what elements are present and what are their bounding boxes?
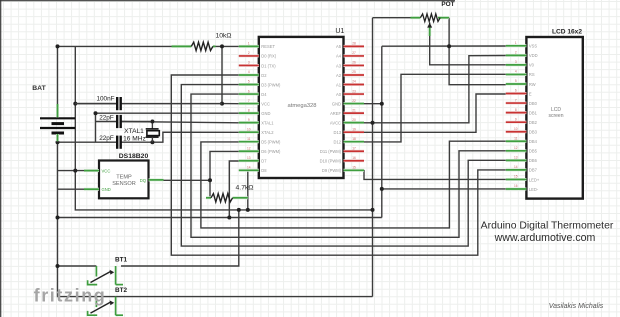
pushbutton BT1	[88, 257, 128, 285]
svg-text:5: 5	[248, 80, 250, 84]
svg-text:GND: GND	[102, 187, 111, 192]
svg-text:D13: D13	[333, 130, 341, 135]
pin U1 right 22 GND	[344, 99, 365, 104]
svg-text:22: 22	[352, 99, 356, 103]
svg-text:A3: A3	[336, 63, 342, 68]
pin U1 left 3 D1 (TX)	[239, 61, 259, 66]
pin U1 left 5 D3 (PWM)	[239, 80, 259, 85]
wire gnd to LED-	[382, 188, 506, 190]
junction gnd pin	[380, 102, 384, 106]
svg-text:D3 (PWM): D3 (PWM)	[261, 82, 281, 87]
svg-text:XTAL1: XTAL1	[124, 128, 144, 135]
wire 10k to reset	[216, 45, 239, 47]
pin U1 left 1 RESET	[239, 42, 259, 47]
capacitor C2 22pF	[96, 114, 151, 128]
pin U1 left 10 XTAL2	[239, 127, 259, 132]
svg-text:8: 8	[248, 108, 250, 112]
svg-text:5: 5	[515, 79, 517, 83]
wire battery+ rail down x57	[57, 46, 59, 118]
wire avcc to riser	[364, 122, 373, 124]
junction bt1 vcc rail	[237, 208, 241, 212]
pin LCD 16 LED-	[506, 184, 527, 189]
wire battery- to caps rail	[58, 141, 117, 143]
svg-text:XTAL1: XTAL1	[261, 120, 274, 125]
svg-text:4.7kΩ: 4.7kΩ	[236, 185, 254, 192]
wire D8 4.7k riser	[247, 171, 249, 210]
svg-text:LCD 16x2: LCD 16x2	[552, 29, 582, 36]
wire battery- down to gnd node	[58, 134, 122, 297]
wire crystal pin1 drop	[151, 122, 153, 129]
wire xtal2 net	[122, 132, 239, 142]
pin U1 right 26 A3	[344, 61, 365, 66]
svg-text:DB0: DB0	[529, 101, 538, 106]
pin U1 left 7 VCC	[239, 99, 259, 104]
svg-text:GND: GND	[261, 111, 270, 116]
svg-text:3: 3	[248, 61, 250, 65]
svg-text:RW: RW	[529, 82, 536, 87]
pin LCD 12 DB5	[506, 146, 527, 151]
svg-text:17: 17	[352, 146, 356, 150]
svg-text:23: 23	[352, 89, 356, 93]
svg-text:3: 3	[515, 60, 517, 64]
pin U1 right 23 A0	[344, 89, 365, 94]
svg-text:VSS: VSS	[529, 44, 537, 49]
svg-text:7: 7	[515, 98, 517, 102]
svg-text:11: 11	[247, 137, 251, 141]
wire avcc to LCD VDD	[373, 56, 506, 123]
wire gnd pin right	[364, 103, 382, 105]
wire D4 to LCD DB5	[191, 94, 506, 237]
junction vcc rail avcc riser	[371, 208, 375, 212]
potentiometer POT	[411, 14, 450, 36]
svg-text:6: 6	[248, 89, 250, 93]
svg-text:11: 11	[514, 136, 518, 140]
pushbutton BT2	[88, 287, 128, 315]
svg-text:9: 9	[515, 117, 517, 121]
junction avcc	[371, 121, 375, 125]
pin U1 left 9 XTAL1	[239, 118, 259, 123]
svg-text:DB1: DB1	[529, 110, 538, 115]
pin U1 left 11 D5 (PWM)	[239, 137, 259, 142]
pin U1 right 18 D12	[344, 137, 365, 142]
border frame	[0, 0, 2, 317]
pin U1 right 16 D10 (PWM)	[344, 156, 365, 161]
svg-text:22pF: 22pF	[99, 135, 114, 142]
svg-text:8: 8	[515, 108, 517, 112]
svg-text:24: 24	[352, 80, 356, 84]
pin U1 left 13 D7	[239, 156, 259, 161]
wire pot wiper to V0	[430, 23, 506, 65]
svg-text:22pF: 22pF	[99, 114, 114, 121]
svg-text:www.ardumotive.com: www.ardumotive.com	[494, 232, 596, 244]
pin LCD 13 DB6	[506, 156, 527, 161]
battery BAT	[40, 118, 75, 133]
svg-text:DS18B20: DS18B20	[119, 153, 149, 160]
svg-text:13: 13	[247, 156, 251, 160]
resistor R1 10k	[172, 33, 232, 51]
wire pot right down to RW	[449, 18, 506, 85]
svg-text:D2: D2	[261, 73, 267, 78]
wire D7 down to gnd line	[229, 161, 239, 218]
pin U1 right 21 AREF	[344, 108, 365, 113]
svg-text:14: 14	[247, 165, 251, 169]
crystal XTAL1 16MHz	[146, 129, 160, 142]
pin LCD 14 DB7	[506, 165, 527, 170]
svg-text:RS: RS	[529, 72, 535, 77]
pin U1 right 28 A5	[344, 42, 365, 47]
svg-text:D12: D12	[333, 140, 341, 145]
wire sensor gnd	[58, 188, 85, 190]
pin U1 left 14 D8	[239, 165, 259, 170]
junction battery+ rail	[56, 44, 60, 48]
svg-text:10kΩ: 10kΩ	[215, 33, 231, 40]
wire vcc riser x222	[221, 46, 223, 103]
svg-text:10: 10	[514, 127, 518, 131]
svg-text:screen: screen	[548, 113, 563, 119]
pin battery -	[56, 134, 59, 141]
svg-text:LED+: LED+	[529, 177, 540, 182]
pin LCD 2 VDD	[506, 51, 527, 56]
wire D2 to LCD DB7	[171, 75, 506, 255]
svg-text:A0: A0	[336, 92, 342, 97]
pin U1 right 19 D13	[344, 127, 365, 132]
svg-text:TEMP: TEMP	[116, 175, 132, 181]
junction xtal1	[150, 120, 154, 124]
wire D3 to LCD DB6	[181, 85, 506, 247]
junction battery-	[56, 140, 60, 144]
junction 4.7k vcc rail	[246, 208, 250, 212]
wire pot left to vcc riser	[373, 17, 411, 19]
svg-text:DB6: DB6	[529, 158, 538, 163]
svg-text:BT2: BT2	[115, 287, 128, 294]
wire gnd branch to ic gnd	[96, 112, 239, 114]
wire 100nF left lead to rail	[75, 103, 116, 105]
wire pot vcc riser	[372, 18, 374, 297]
pin sensor GND	[84, 188, 99, 191]
svg-text:D8: D8	[261, 168, 267, 173]
IC U1 atmega328 body	[259, 37, 344, 178]
wire 100nF to vcc pin	[222, 103, 239, 105]
junction pot gnd riser	[447, 44, 451, 48]
pin LCD 9 DB2	[506, 117, 527, 122]
pin LCD 4 RS	[506, 70, 527, 75]
svg-text:26: 26	[352, 61, 356, 65]
wire D5 to LCD DB4	[201, 141, 506, 228]
junction 100nF rail	[73, 102, 77, 106]
wire gnd long line	[58, 217, 382, 219]
svg-text:14: 14	[514, 165, 518, 169]
pin LCD 10 DB3	[506, 127, 527, 132]
svg-text:atmega328: atmega328	[287, 103, 316, 109]
svg-text:6: 6	[515, 89, 517, 93]
svg-text:D4: D4	[261, 92, 267, 97]
svg-text:LED-: LED-	[529, 187, 539, 192]
svg-text:28: 28	[352, 42, 356, 46]
pin LCD 8 DB1	[506, 108, 527, 113]
junction xtal2	[150, 140, 154, 144]
svg-text:AREF: AREF	[330, 111, 341, 116]
pin U1 left 6 D4	[239, 89, 259, 94]
wire D12 to LCD RS	[364, 74, 506, 142]
wire xtal1 net	[122, 122, 239, 123]
svg-text:U1: U1	[335, 28, 344, 35]
svg-text:A5: A5	[336, 44, 342, 49]
junction bt1 rail	[56, 264, 60, 268]
svg-text:GND: GND	[332, 101, 341, 106]
svg-text:Vasilakis Michalis: Vasilakis Michalis	[549, 303, 604, 310]
pin sensor DQ	[149, 178, 164, 181]
svg-text:D6 (PWM): D6 (PWM)	[261, 149, 281, 154]
pin U1 right 24 A1	[344, 80, 365, 85]
svg-text:1: 1	[515, 41, 517, 45]
pin LCD 1 VSS	[506, 41, 527, 46]
wire gnd riser	[381, 46, 383, 217]
wire bt1 left	[58, 265, 97, 267]
wire D9 to LED+	[364, 170, 506, 180]
svg-text:D1 (TX): D1 (TX)	[261, 63, 276, 68]
pin LCD 15 LED+	[506, 175, 527, 180]
svg-text:D9 (PWM): D9 (PWM)	[322, 168, 342, 173]
wire caps left rail	[95, 113, 97, 142]
svg-text:DB4: DB4	[529, 139, 538, 144]
pin LCD 11 DB4	[506, 136, 527, 141]
svg-text:15: 15	[352, 165, 356, 169]
svg-text:18: 18	[352, 137, 356, 141]
svg-text:DQ: DQ	[140, 178, 147, 183]
svg-text:7: 7	[248, 99, 250, 103]
svg-text:RESET: RESET	[261, 44, 275, 49]
wire battery+ to reset pullup rail	[58, 45, 172, 47]
svg-text:2: 2	[515, 51, 517, 55]
junction sensor vcc rail	[73, 169, 77, 173]
svg-text:DB2: DB2	[529, 120, 538, 125]
capacitor C1 100nF	[75, 96, 222, 111]
pin LCD 6 E	[506, 89, 527, 94]
pin U1 left 8 GND	[239, 108, 259, 113]
pin sensor VCC	[84, 169, 99, 172]
wire vcc rail x75	[75, 46, 372, 210]
junction gnd led-	[380, 187, 384, 191]
svg-text:BT1: BT1	[115, 257, 128, 264]
svg-text:16: 16	[352, 156, 356, 160]
svg-text:13: 13	[514, 156, 518, 160]
svg-text:100nF: 100nF	[96, 96, 114, 103]
svg-text:4: 4	[515, 70, 517, 74]
svg-text:A4: A4	[336, 54, 342, 59]
svg-text:15: 15	[514, 175, 518, 179]
wire sensor vcc	[58, 170, 85, 172]
pin LCD 3 V0	[506, 60, 527, 65]
svg-text:19: 19	[352, 127, 356, 131]
wire bt2	[121, 296, 373, 298]
svg-text:AVCC: AVCC	[330, 120, 341, 125]
svg-text:XTAL2: XTAL2	[261, 130, 274, 135]
svg-text:12: 12	[247, 146, 251, 150]
pin LCD 7 DB0	[506, 98, 527, 103]
svg-text:D11 (PWM): D11 (PWM)	[320, 149, 342, 154]
svg-text:4: 4	[248, 70, 250, 74]
LCD LCD1 16x2 body	[526, 37, 582, 199]
junction vcc riser top	[220, 44, 224, 48]
svg-text:16 MHz: 16 MHz	[123, 136, 146, 143]
svg-text:A1: A1	[336, 82, 342, 87]
svg-text:POT: POT	[441, 1, 454, 8]
svg-text:SENSOR: SENSOR	[112, 181, 136, 187]
svg-text:9: 9	[248, 118, 250, 122]
pin U1 right 25 A2	[344, 70, 365, 75]
svg-text:fritzing: fritzing	[34, 286, 107, 306]
svg-text:16: 16	[514, 184, 518, 188]
svg-text:D5 (PWM): D5 (PWM)	[261, 140, 281, 145]
svg-text:E: E	[529, 91, 532, 96]
svg-text:DB5: DB5	[529, 149, 538, 154]
junction 100nF vcc	[220, 102, 224, 106]
resistor R2 4.7k	[206, 185, 253, 203]
svg-text:1: 1	[248, 42, 250, 46]
svg-text:VDD: VDD	[529, 53, 538, 58]
svg-text:D7: D7	[261, 159, 267, 164]
svg-text:21: 21	[352, 108, 356, 112]
pin U1 right 27 A4	[344, 51, 365, 56]
svg-text:DB7: DB7	[529, 168, 538, 173]
pin U1 right 17 D11 (PWM)	[344, 146, 365, 151]
svg-text:2: 2	[248, 51, 250, 55]
pin U1 right 20 AVCC	[344, 118, 365, 123]
svg-text:D0 (RX): D0 (RX)	[261, 54, 276, 59]
svg-text:V0: V0	[529, 63, 535, 68]
svg-text:VCC: VCC	[261, 101, 270, 106]
pin U1 left 4 D2	[239, 70, 259, 75]
wire D13 to LCD E	[364, 94, 506, 132]
pin LCD 5 RW	[506, 79, 527, 84]
wire gnd top to LCD VSS	[382, 45, 506, 47]
pin battery +	[56, 104, 59, 117]
wire sensor dq to d6 riser	[164, 179, 211, 181]
svg-text:BAT: BAT	[32, 85, 46, 92]
junction dq	[208, 178, 212, 182]
svg-text:10: 10	[247, 127, 251, 131]
svg-text:VCC: VCC	[102, 168, 111, 173]
pin U1 left 12 D6 (PWM)	[239, 146, 259, 151]
pin U1 left 2 D0 (RX)	[239, 51, 259, 56]
wire bt1 to vcc rail	[121, 210, 239, 266]
pin U1 right 15 D9 (PWM)	[344, 165, 365, 170]
svg-text:25: 25	[352, 70, 356, 74]
junction d7 gnd line	[227, 216, 231, 220]
svg-text:A2: A2	[336, 73, 342, 78]
svg-text:27: 27	[352, 51, 356, 55]
svg-text:DB3: DB3	[529, 130, 538, 135]
wire D6 to 4.7k	[210, 151, 239, 197]
svg-text:Arduino Digital Thermometer: Arduino Digital Thermometer	[481, 221, 614, 232]
svg-text:12: 12	[514, 146, 518, 150]
svg-text:20: 20	[352, 118, 356, 122]
junction gnd caps rail	[94, 111, 98, 115]
svg-text:D10 (PWM): D10 (PWM)	[320, 159, 342, 164]
junction gnd branch	[56, 216, 60, 220]
temp sensor DS18B20	[99, 161, 149, 199]
capacitor C3 22pF	[99, 135, 120, 149]
